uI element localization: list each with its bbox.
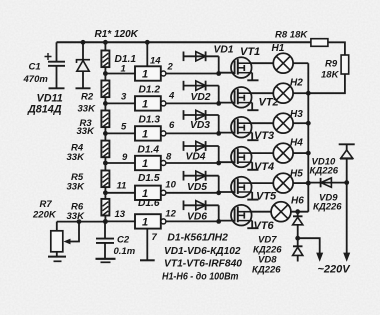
- svg-text:12: 12: [165, 208, 176, 219]
- svg-text:D1.2: D1.2: [139, 84, 161, 95]
- svg-text:3: 3: [121, 92, 127, 103]
- arrowhead mains left: [316, 253, 323, 262]
- wire pin 14: [146, 42, 148, 66]
- svg-text:470m: 470m: [23, 74, 49, 85]
- svg-text:10: 10: [165, 179, 176, 190]
- svg-text:КД226: КД226: [310, 166, 339, 177]
- wire output pin 10: [166, 192, 219, 194]
- svg-text:1: 1: [121, 64, 126, 75]
- svg-text:VT5: VT5: [256, 191, 277, 203]
- node junction row 5: [216, 190, 221, 195]
- svg-text:33K: 33K: [78, 104, 97, 115]
- svg-text:КД226: КД226: [252, 265, 281, 276]
- capacitor C2: [96, 219, 114, 258]
- svg-text:1: 1: [142, 69, 148, 81]
- wire output pin 8: [166, 162, 219, 164]
- diode VD4: [184, 141, 219, 163]
- diode VD5: [184, 171, 219, 193]
- wire input pin 13: [105, 220, 135, 222]
- svg-text:H1: H1: [272, 43, 285, 54]
- svg-text:R2: R2: [81, 92, 94, 103]
- svg-text:~220V: ~220V: [318, 264, 352, 276]
- svg-text:1: 1: [142, 98, 148, 110]
- resistor R5: [101, 163, 109, 195]
- svg-text:33K: 33K: [67, 211, 86, 222]
- svg-text:КД226: КД226: [313, 202, 342, 213]
- diode VD6: [184, 200, 219, 221]
- svg-text:H4: H4: [290, 138, 303, 149]
- node junction row 4: [216, 161, 221, 166]
- wire input pin 1: [105, 73, 135, 75]
- resistor R3: [101, 103, 109, 135]
- svg-text:6: 6: [169, 120, 175, 131]
- svg-text:9: 9: [122, 152, 128, 163]
- svg-text:7: 7: [152, 232, 158, 243]
- svg-text:H1-Н6 - до 100Вт: H1-Н6 - до 100Вт: [162, 272, 239, 283]
- wire R8 to R9: [328, 42, 345, 55]
- node junction row 6: [216, 219, 221, 224]
- wire R7 top lead: [56, 222, 58, 231]
- svg-text:VD1-VD6-КД102: VD1-VD6-КД102: [164, 246, 241, 257]
- wire output pin 2: [166, 73, 219, 75]
- svg-text:1: 1: [142, 158, 148, 170]
- svg-text:4: 4: [168, 90, 175, 101]
- wire pin 7: [146, 229, 148, 260]
- inverter bubble D1.5: [161, 190, 166, 195]
- ground pin 7: [140, 259, 155, 261]
- wire lamp common rail: [307, 63, 309, 212]
- diode VD3: [184, 110, 219, 133]
- logic inverter D1.4: [135, 156, 161, 170]
- diode VD1: [184, 51, 219, 73]
- svg-text:2: 2: [167, 62, 174, 73]
- svg-text:0.1m: 0.1m: [114, 246, 136, 257]
- svg-text:18K: 18K: [321, 70, 340, 81]
- node junction row 2: [216, 101, 221, 106]
- logic inverter D1.1: [135, 66, 161, 80]
- lamp H4: [251, 143, 293, 163]
- transistor VT1: [219, 57, 259, 80]
- svg-text:33K: 33K: [67, 152, 86, 163]
- junction dot H6: [295, 209, 300, 214]
- svg-text:C2: C2: [117, 235, 130, 246]
- wire lamp H2 to rail: [293, 92, 308, 94]
- svg-text:Д814Д: Д814Д: [27, 104, 62, 116]
- svg-text:14: 14: [150, 56, 161, 67]
- wire top supply rail: [57, 41, 311, 43]
- wire input pin 9: [105, 162, 135, 164]
- junction dot top of chain: [103, 40, 108, 45]
- lamp H3: [251, 113, 293, 133]
- potentiometer R7: [51, 231, 63, 252]
- wire lamp H6 to node: [291, 211, 308, 213]
- svg-text:VT6: VT6: [254, 220, 275, 232]
- wire lamp H5 to rail: [293, 182, 308, 184]
- inverter bubble D1.1: [161, 71, 166, 76]
- transistor VT2: [219, 87, 259, 110]
- logic inverter D1.3: [135, 126, 161, 140]
- svg-text:VD6: VD6: [187, 211, 207, 222]
- transistor VT3: [219, 117, 259, 140]
- svg-text:D1.5: D1.5: [138, 173, 160, 184]
- lamp H2: [251, 83, 293, 103]
- wire R7 bottom lead: [56, 252, 58, 256]
- svg-text:R9: R9: [325, 59, 338, 70]
- wire lamp H3 to rail: [293, 122, 308, 124]
- svg-text:D1-К561ЛН2: D1-К561ЛН2: [167, 233, 228, 244]
- transistor VT5: [219, 177, 259, 200]
- wire R7/C2 node: [57, 221, 106, 223]
- junction dot R7 wiper: [77, 219, 82, 224]
- junction dot rail: [306, 181, 311, 186]
- svg-text:H6: H6: [291, 196, 304, 207]
- inverter bubble D1.4: [161, 161, 166, 166]
- wire output pin 4: [166, 102, 219, 104]
- svg-text:VD3: VD3: [190, 120, 210, 131]
- ground under C2: [96, 259, 116, 263]
- node junction row 3: [216, 131, 221, 136]
- inverter bubble D1.3: [161, 131, 166, 136]
- arrowhead R7 wiper: [64, 239, 71, 245]
- svg-text:R7: R7: [40, 199, 53, 210]
- logic inverter D1.5: [135, 186, 161, 200]
- resistor R6: [101, 193, 109, 224]
- resistor R8: [311, 39, 328, 47]
- svg-text:33K: 33K: [77, 126, 96, 137]
- svg-text:1: 1: [142, 128, 148, 140]
- svg-text:D1.3: D1.3: [139, 114, 161, 125]
- wire output pin 12: [166, 220, 219, 222]
- lamp H6: [251, 202, 291, 222]
- svg-text:H5: H5: [290, 169, 303, 180]
- transistor VT4: [219, 147, 259, 170]
- svg-text:D1.4: D1.4: [138, 144, 160, 155]
- wire mains right: [346, 183, 348, 253]
- svg-text:8: 8: [166, 152, 172, 163]
- resistor R2: [101, 74, 109, 106]
- ground under R7: [48, 257, 66, 262]
- svg-text:VT3: VT3: [254, 130, 274, 142]
- svg-text:R8 18K: R8 18K: [275, 30, 308, 41]
- lamp H5: [251, 173, 293, 193]
- inverter bubble D1.2: [161, 101, 166, 106]
- arrowhead mains right: [343, 253, 350, 262]
- svg-text:VD1: VD1: [214, 44, 234, 55]
- resistor R1: [101, 42, 109, 76]
- node junction row 1: [216, 71, 221, 76]
- svg-text:VD2: VD2: [191, 92, 211, 103]
- resistor R4: [101, 133, 109, 165]
- diode VD7: [293, 212, 303, 239]
- junction dot rail: [306, 91, 311, 96]
- svg-text:VT1-VT6-IRF840: VT1-VT6-IRF840: [164, 259, 242, 270]
- lamp H1: [251, 53, 293, 73]
- wire output pin 6: [166, 132, 219, 134]
- svg-text:VD4: VD4: [186, 152, 206, 163]
- svg-text:13: 13: [115, 209, 126, 220]
- svg-text:VT4: VT4: [254, 161, 274, 173]
- svg-text:11: 11: [117, 180, 127, 191]
- svg-text:D1.6: D1.6: [138, 198, 160, 209]
- wire input pin 5: [105, 132, 135, 134]
- capacitor C1: [48, 42, 65, 88]
- junction dot pin 14: [145, 40, 150, 45]
- logic inverter D1.6: [135, 214, 161, 228]
- svg-text:C1: C1: [29, 62, 41, 73]
- diode VD8: [293, 238, 303, 261]
- wire R9 bottom to rail: [308, 74, 345, 93]
- wire input pin 3: [105, 102, 135, 104]
- diode VD9: [306, 178, 349, 187]
- svg-text:220K: 220K: [32, 210, 57, 221]
- svg-text:33K: 33K: [67, 182, 86, 193]
- junction dot VD7: [295, 236, 300, 241]
- svg-text:R1* 120K: R1* 120K: [95, 29, 139, 40]
- wire lamp H1 to rail: [293, 62, 308, 64]
- svg-text:H2: H2: [290, 78, 303, 89]
- svg-text:VT1: VT1: [240, 46, 260, 58]
- diode VD10: [339, 144, 355, 182]
- junction dot rail: [306, 121, 311, 126]
- diode VD2: [184, 81, 219, 104]
- transistor VT6: [219, 205, 259, 228]
- svg-text:1: 1: [142, 216, 148, 228]
- wire input pin 11: [105, 192, 135, 194]
- inverter bubble D1.6: [161, 219, 166, 224]
- label C1 plus: [45, 53, 52, 60]
- resistor R9: [341, 55, 349, 74]
- junction dot rail: [306, 151, 311, 156]
- svg-text:5: 5: [121, 122, 127, 133]
- svg-text:D1.1: D1.1: [115, 54, 137, 65]
- zener diode VD11: [76, 40, 91, 88]
- svg-text:H3: H3: [290, 109, 303, 120]
- wire mains left: [298, 238, 320, 253]
- svg-text:VD5: VD5: [187, 182, 207, 193]
- wire lamp H4 to rail: [293, 152, 308, 154]
- logic inverter D1.2: [135, 96, 161, 110]
- wire R7 wiper: [67, 222, 80, 242]
